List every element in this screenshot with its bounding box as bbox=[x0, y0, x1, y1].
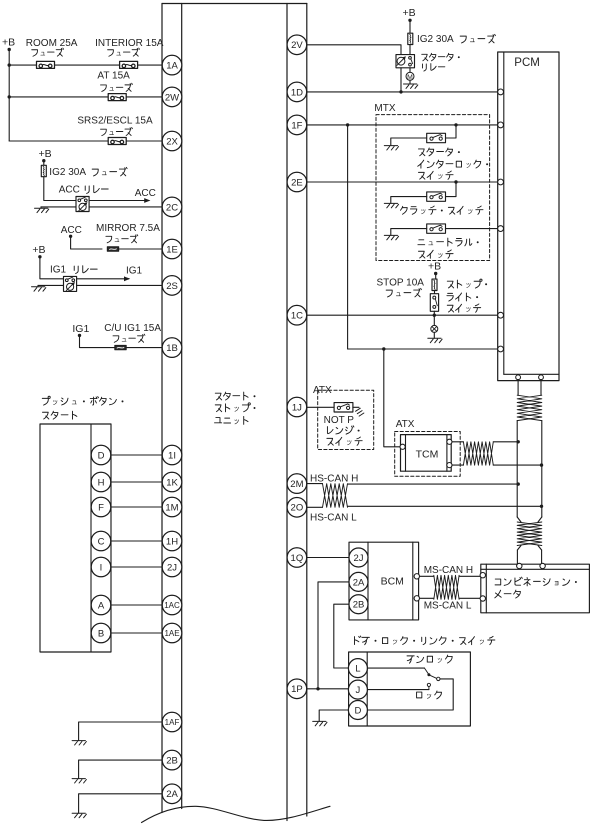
svg-text:1AF: 1AF bbox=[165, 718, 180, 727]
pin PCM 1D bbox=[498, 89, 504, 95]
svg-text:2C: 2C bbox=[166, 202, 178, 213]
svg-text:2A: 2A bbox=[166, 789, 178, 800]
svg-text:B: B bbox=[98, 628, 104, 639]
label combination meter bbox=[495, 577, 577, 598]
svg-text:ATX: ATX bbox=[396, 419, 415, 430]
wire BCM L to meter bbox=[420, 597, 481, 599]
wire ACC relay coil to ground bbox=[41, 207, 76, 208]
svg-text:J: J bbox=[356, 685, 361, 696]
svg-text:1AC: 1AC bbox=[164, 601, 180, 610]
label IG1 (arrow) bbox=[126, 266, 143, 277]
wire fuse to starter relay contact bbox=[409, 45, 411, 55]
switch clutch bbox=[427, 192, 446, 201]
fuse IG2 30A (left) bbox=[41, 165, 46, 176]
label neutral switch bbox=[418, 238, 479, 258]
junction HS-CAN H bundle bbox=[517, 482, 520, 485]
pin I (push button) bbox=[91, 557, 111, 577]
svg-text:1Q: 1Q bbox=[291, 553, 304, 564]
node +B (starter) bbox=[403, 7, 416, 22]
start-stop unit right rail bbox=[287, 4, 307, 821]
ground (door D) bbox=[313, 721, 327, 725]
wire IG1 to C/U fuse bbox=[80, 335, 116, 347]
junction 349/TCM drop bbox=[382, 347, 385, 350]
svg-text:MTX: MTX bbox=[374, 103, 395, 114]
wire starter relay coil to 1D bbox=[400, 68, 402, 92]
svg-text:I: I bbox=[100, 562, 103, 573]
pin 2A bbox=[162, 784, 182, 804]
wire clutch rise bbox=[446, 182, 456, 197]
svg-text:2E: 2E bbox=[291, 177, 303, 188]
svg-text:D: D bbox=[354, 705, 361, 716]
TCM box bbox=[401, 435, 452, 472]
pin PCM row349 bbox=[498, 346, 504, 352]
svg-text:2S: 2S bbox=[166, 281, 178, 292]
wire 2A drop to 1P bbox=[318, 582, 349, 689]
pin D bbox=[348, 701, 367, 720]
fuse AT 15A bbox=[108, 94, 126, 101]
pin C (push button) bbox=[91, 531, 111, 551]
wire BCM H to meter bbox=[420, 575, 481, 577]
label PCM bbox=[514, 57, 540, 69]
node +B (stop) bbox=[428, 261, 441, 276]
label AT 15A bbox=[97, 71, 132, 92]
pin 1E bbox=[162, 239, 182, 259]
PCM bottom pins bbox=[516, 375, 544, 380]
wire C/U fuse to 1B bbox=[126, 347, 162, 349]
node +B (IG2 left) bbox=[39, 148, 52, 163]
wire 1Q to BCM 2J bbox=[307, 557, 349, 559]
svg-text:A: A bbox=[98, 600, 105, 611]
wire +B to IG2 fuse bbox=[43, 161, 45, 166]
svg-text:BCM: BCM bbox=[381, 575, 404, 587]
relay starter bbox=[396, 55, 415, 68]
pin 1P bbox=[287, 679, 307, 699]
label BCM bbox=[381, 575, 404, 587]
wire mirror fuse to 1E bbox=[119, 248, 162, 250]
ATX dashed box (tcm) bbox=[395, 432, 461, 477]
label starter interlock switch bbox=[418, 148, 488, 179]
wire IG1 relay coil to ground bbox=[38, 285, 64, 286]
wire IG1 out with arrow bbox=[77, 276, 131, 281]
label INTERIOR 15A bbox=[95, 38, 164, 56]
svg-text:1P: 1P bbox=[291, 684, 303, 695]
ground (1AF) bbox=[72, 741, 86, 745]
PCM box bbox=[498, 52, 559, 381]
BCM box bbox=[349, 542, 419, 620]
label ROOM 25A bbox=[26, 38, 78, 56]
svg-text:IG1: IG1 bbox=[72, 323, 89, 335]
label ACC relay bbox=[59, 185, 108, 196]
wire TCM drop bbox=[384, 349, 400, 447]
pin PCM neutral bbox=[498, 226, 504, 232]
wire D to 1I bbox=[111, 454, 162, 456]
wire PCM pins to spring bbox=[518, 380, 541, 396]
ground (starter motor) bbox=[404, 84, 418, 88]
label push-button start bbox=[42, 396, 123, 419]
coil bundle top bbox=[517, 395, 542, 420]
ground (NOT P) bbox=[356, 408, 364, 416]
fuse C/U IG1 15A bbox=[115, 345, 126, 349]
ground (interlock) bbox=[384, 146, 398, 150]
MTX dashed box bbox=[376, 115, 490, 261]
wire 2A to ground bbox=[79, 794, 162, 814]
pin TCM left bbox=[400, 444, 405, 449]
pin meter left H bbox=[480, 573, 485, 578]
svg-text:PCM: PCM bbox=[514, 57, 540, 69]
switch arm (door) bbox=[429, 675, 440, 681]
label MS-CAN H bbox=[424, 565, 473, 576]
junction coil/1D bbox=[399, 90, 402, 93]
wire bundle taper lower bbox=[517, 517, 542, 550]
label HS-CAN H bbox=[310, 473, 358, 484]
wire ACC to mirror fuse bbox=[71, 236, 102, 249]
pin 2M bbox=[287, 474, 307, 494]
ground (ACC relay) bbox=[35, 208, 49, 212]
junction stop/1C bbox=[433, 314, 436, 317]
wire HS-CAN L bbox=[348, 505, 542, 507]
svg-text:C: C bbox=[98, 536, 105, 547]
wire 1P to J bbox=[307, 688, 349, 690]
wire motor to ground bbox=[409, 80, 411, 84]
wire J internal bbox=[367, 689, 429, 691]
ground (stop lamp) bbox=[428, 338, 442, 342]
switch NOT P range bbox=[334, 403, 353, 412]
pin 1F bbox=[287, 115, 307, 135]
svg-text:ACC: ACC bbox=[61, 225, 82, 236]
wire HS-CAN H bbox=[348, 483, 519, 485]
svg-text:2X: 2X bbox=[166, 136, 178, 147]
switch stop light bbox=[430, 294, 438, 312]
svg-text:IG2 30A: IG2 30A bbox=[49, 167, 86, 178]
wire 2B to L bbox=[334, 604, 349, 668]
pin 1C bbox=[287, 305, 307, 325]
wire bundle to meter bbox=[517, 550, 541, 566]
svg-text:STOP 10A: STOP 10A bbox=[377, 278, 425, 289]
wire ACC relay coil to 2C bbox=[89, 206, 162, 208]
ground (neutral) bbox=[384, 235, 398, 239]
wire lamp to ground bbox=[433, 332, 435, 338]
node ACC (mirror) bbox=[61, 225, 82, 238]
svg-text:MS-CAN L: MS-CAN L bbox=[424, 601, 472, 612]
wire 1F row bbox=[307, 124, 498, 126]
lamp stop light bbox=[431, 325, 438, 332]
pin meter top H bbox=[517, 563, 522, 568]
pin 1J bbox=[287, 397, 307, 417]
svg-text:+B: +B bbox=[403, 7, 416, 19]
wire 1J to NOT P switch bbox=[307, 406, 334, 408]
fuse MIRROR 7.5A bbox=[107, 247, 118, 251]
wire L to pivot bbox=[367, 668, 429, 675]
junction HS-CAN L bundle bbox=[540, 505, 543, 508]
label clutch switch bbox=[400, 206, 483, 214]
label IG2 30A fuse (starter) bbox=[417, 34, 495, 45]
svg-text:2J: 2J bbox=[167, 562, 177, 573]
label MTX bbox=[374, 103, 395, 114]
wire 2B to ground bbox=[79, 760, 162, 779]
pin H (push button) bbox=[91, 472, 111, 492]
svg-text:+B: +B bbox=[32, 244, 45, 256]
wire PCM pin row349 to left bbox=[348, 348, 498, 350]
svg-text:ACC: ACC bbox=[135, 188, 156, 199]
wire H to 1K bbox=[111, 481, 162, 483]
fuse ROOM 25A bbox=[37, 61, 55, 68]
junction TCM-H bundle bbox=[517, 440, 520, 443]
wire 2E row bbox=[307, 181, 498, 183]
svg-text:2A: 2A bbox=[353, 577, 365, 588]
coil bundle lower bbox=[517, 522, 542, 546]
wire +B to IG1 relay bbox=[40, 257, 64, 279]
pin 2B bbox=[162, 750, 182, 770]
label MIRROR 7.5A bbox=[96, 223, 160, 243]
wire A to 1AC bbox=[111, 604, 162, 606]
node IG1 (C/U) bbox=[72, 323, 89, 337]
start-stop unit left rail bbox=[162, 4, 182, 813]
svg-text:1K: 1K bbox=[166, 477, 178, 488]
switch neutral bbox=[427, 224, 446, 233]
svg-text:2O: 2O bbox=[291, 503, 304, 514]
page tear curve bbox=[142, 806, 331, 822]
svg-text:F: F bbox=[98, 502, 104, 513]
junction TCM-L bundle bbox=[540, 463, 543, 466]
wire row 1A bbox=[9, 64, 162, 66]
pin 1M bbox=[162, 497, 182, 517]
svg-text:1I: 1I bbox=[168, 450, 176, 461]
door lock link switch box bbox=[349, 652, 471, 726]
label lock bbox=[417, 691, 442, 699]
contact J (door sw) bbox=[427, 683, 430, 689]
pin 2X bbox=[162, 131, 182, 151]
relay ACC bbox=[76, 197, 89, 212]
label start-stop unit bbox=[215, 392, 256, 424]
pin 1A bbox=[162, 55, 182, 75]
wire NOT P to ground bbox=[353, 406, 359, 408]
junction 1F/interlock bbox=[454, 123, 457, 126]
label ATX (tcm) bbox=[396, 419, 415, 430]
wire IG2 fuse to ACC relay bbox=[44, 177, 76, 201]
pin BCM 2J bbox=[349, 548, 368, 567]
wire TCM upper out bbox=[452, 441, 518, 443]
svg-text:2J: 2J bbox=[353, 553, 363, 564]
svg-text:+B: +B bbox=[2, 37, 15, 49]
label starter relay bbox=[422, 53, 460, 71]
wire I to 2J bbox=[111, 566, 162, 568]
svg-text:SRS2/ESCL 15A: SRS2/ESCL 15A bbox=[77, 116, 153, 127]
switch starter interlock bbox=[427, 133, 446, 142]
svg-text:+B: +B bbox=[39, 148, 52, 160]
node +B (top left) bbox=[2, 37, 15, 52]
pin BCM 2B bbox=[349, 595, 368, 614]
svg-text:D: D bbox=[98, 450, 105, 461]
label STOP 10A fuse bbox=[377, 278, 425, 297]
pin 2J bbox=[162, 557, 182, 577]
label door lock link switch bbox=[355, 636, 495, 645]
svg-text:1M: 1M bbox=[165, 502, 178, 513]
node +B (IG1) bbox=[32, 244, 45, 258]
ground (2A) bbox=[72, 813, 86, 817]
wire D to ground bbox=[319, 710, 348, 721]
pin 1Q bbox=[287, 548, 307, 568]
wire ACC out with arrow bbox=[89, 198, 150, 203]
svg-text:AT 15A: AT 15A bbox=[97, 71, 130, 82]
pin 1K bbox=[162, 472, 182, 492]
pin 1D bbox=[287, 82, 307, 102]
svg-text:IG1: IG1 bbox=[126, 266, 143, 277]
svg-text:2B: 2B bbox=[166, 756, 178, 767]
pin 2O bbox=[287, 498, 307, 518]
pin PCM 1F bbox=[498, 122, 504, 128]
ATX dashed box (notp) bbox=[318, 390, 374, 449]
svg-text:2M: 2M bbox=[290, 479, 303, 490]
svg-text:ACC: ACC bbox=[59, 185, 80, 196]
pin L bbox=[348, 659, 367, 678]
wire neutral to ground bbox=[391, 229, 427, 236]
svg-text:IG1: IG1 bbox=[50, 264, 67, 275]
wire row 2W bbox=[9, 96, 162, 98]
pin 2C bbox=[162, 197, 182, 217]
svg-text:1B: 1B bbox=[166, 343, 178, 354]
fuse STOP 10A bbox=[432, 279, 437, 290]
junction 2A/1P bbox=[316, 687, 319, 690]
wire starter relay contact to motor bbox=[409, 68, 411, 73]
label ACC (arrow) bbox=[135, 188, 156, 199]
wire +B to stop fuse bbox=[435, 274, 437, 280]
svg-text:INTERIOR 15A: INTERIOR 15A bbox=[95, 38, 164, 49]
pin BCM 2A bbox=[349, 572, 368, 591]
label IG1 relay bbox=[50, 264, 97, 275]
svg-text:ROOM 25A: ROOM 25A bbox=[26, 38, 78, 49]
ground (IG1 relay) bbox=[32, 287, 46, 291]
svg-text:H: H bbox=[98, 477, 105, 488]
svg-text:+B: +B bbox=[428, 261, 441, 273]
svg-text:1F: 1F bbox=[291, 120, 302, 131]
svg-text:TCM: TCM bbox=[416, 448, 439, 460]
pin BCM out L bbox=[414, 596, 419, 601]
junction 1F/down-left bbox=[346, 123, 349, 126]
pin 1B bbox=[162, 338, 182, 358]
junction pivot (door sw) bbox=[427, 673, 430, 676]
wire 1D row bbox=[307, 91, 498, 93]
svg-text:HS-CAN L: HS-CAN L bbox=[310, 513, 357, 524]
pin 1H bbox=[162, 531, 182, 551]
svg-text:1H: 1H bbox=[166, 536, 178, 547]
svg-text:2W: 2W bbox=[165, 92, 179, 103]
label stop light switch bbox=[447, 279, 487, 312]
pin TCM right lower bbox=[447, 463, 452, 468]
fuse INTERIOR 15A bbox=[120, 61, 138, 68]
pin J bbox=[348, 680, 367, 699]
svg-text:1A: 1A bbox=[166, 61, 178, 72]
coil MS-CAN pair bbox=[434, 575, 459, 599]
junction 2E/clutch bbox=[454, 180, 457, 183]
svg-text:1C: 1C bbox=[291, 311, 303, 322]
wire 1C row bbox=[307, 314, 498, 316]
wire row 2X bbox=[9, 140, 162, 142]
pin 1AF bbox=[162, 712, 182, 732]
svg-text:NOT P: NOT P bbox=[324, 415, 355, 426]
relay IG1 bbox=[64, 276, 77, 291]
svg-text:MS-CAN H: MS-CAN H bbox=[424, 565, 473, 576]
bundle channel upper bbox=[517, 421, 542, 517]
svg-text:C/U IG1 15A: C/U IG1 15A bbox=[104, 323, 161, 334]
svg-text:1AE: 1AE bbox=[164, 629, 179, 638]
svg-text:IG2 30A: IG2 30A bbox=[417, 34, 454, 45]
fuse SRS2/ESCL 15A bbox=[108, 138, 126, 145]
coil HS-CAN pair bbox=[323, 484, 348, 508]
wire unlock contact to D bbox=[367, 679, 453, 710]
start-stop unit box top edge bbox=[162, 3, 307, 5]
pin TCM right upper bbox=[447, 439, 452, 444]
pin BCM out H bbox=[414, 574, 419, 579]
wire stop switch to lamp bbox=[433, 311, 435, 325]
label MS-CAN L bbox=[424, 601, 472, 612]
svg-text:MIRROR 7.5A: MIRROR 7.5A bbox=[96, 223, 160, 234]
wire +B vertical to 2X row bbox=[8, 50, 10, 142]
junction +B/1A bbox=[8, 63, 11, 66]
wire interlock to ground bbox=[391, 138, 427, 146]
wire F to 1M bbox=[111, 506, 162, 508]
wire 2V to starter relay coil bbox=[307, 45, 401, 55]
coil TCM pair bbox=[463, 442, 493, 465]
wire vertical 1F-349 bbox=[347, 125, 349, 349]
pin A (push button) bbox=[91, 595, 111, 615]
junction +B/2W bbox=[8, 95, 11, 98]
wire interlock drop bbox=[446, 125, 456, 138]
pin 2E bbox=[287, 172, 307, 192]
wire IG1 relay coil to 2S bbox=[77, 284, 162, 286]
label HS-CAN L bbox=[310, 513, 357, 524]
wire B to 1AE bbox=[111, 632, 162, 634]
pin meter left L bbox=[480, 596, 485, 601]
fuse IG2 30A (starter) bbox=[408, 33, 413, 44]
svg-text:L: L bbox=[355, 664, 360, 675]
label unlock bbox=[407, 655, 452, 663]
combination meter box bbox=[481, 564, 590, 613]
wire 2O out bbox=[307, 506, 323, 508]
wire +B to IG2 fuse (starter) bbox=[409, 20, 411, 33]
svg-text:1J: 1J bbox=[292, 402, 302, 413]
wire C to 1H bbox=[111, 540, 162, 542]
pin PCM 1C bbox=[498, 312, 504, 318]
pin PCM 2E bbox=[498, 179, 504, 185]
pin 1AC bbox=[162, 595, 182, 615]
wire clutch to ground bbox=[391, 197, 427, 204]
pin F (push button) bbox=[91, 497, 111, 517]
pin 2W bbox=[162, 87, 182, 107]
pin B (push button) bbox=[91, 623, 111, 643]
ground (2B) bbox=[72, 779, 86, 783]
pin D (push button) bbox=[91, 445, 111, 465]
pin 2S bbox=[162, 276, 182, 296]
motor M (starter) bbox=[406, 72, 414, 81]
svg-text:2B: 2B bbox=[353, 600, 365, 611]
wire TCM lower out bbox=[452, 464, 542, 466]
label IG2 30A fuse (left) bbox=[49, 167, 127, 178]
ground (clutch) bbox=[384, 203, 398, 207]
label ATX (notp) bbox=[311, 384, 339, 397]
wire stop fuse to switch bbox=[434, 290, 436, 293]
pin 1I bbox=[162, 445, 182, 465]
wire 1AF to ground bbox=[79, 722, 162, 741]
pin 1AE bbox=[162, 623, 182, 643]
wire neutral to PCM bbox=[446, 228, 498, 230]
svg-text:HS-CAN H: HS-CAN H bbox=[310, 473, 358, 484]
wire 2M out bbox=[307, 483, 323, 485]
label SRS2/ESCL 15A bbox=[77, 116, 153, 136]
label TCM bbox=[416, 448, 439, 460]
pin meter top L bbox=[540, 563, 545, 568]
label NOT P range switch bbox=[324, 415, 363, 446]
svg-text:2V: 2V bbox=[291, 40, 303, 51]
